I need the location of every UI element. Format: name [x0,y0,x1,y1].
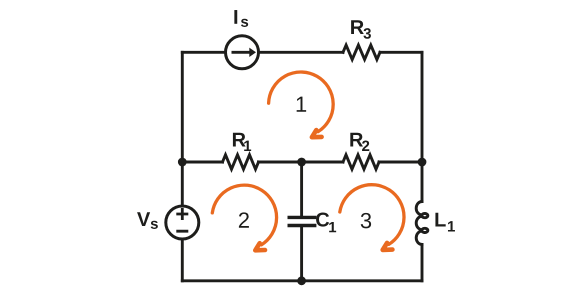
node dot center-bottom [297,276,306,285]
mesh number 2 [239,212,249,227]
mesh current arrow 2 [212,185,276,250]
wire: top, left of current source [182,51,225,54]
mesh number 3 [361,213,371,229]
label Vs (voltage source) [137,212,158,229]
wire: middle rail, between R1 and R2 [259,161,344,164]
wire: center branch above C1 [300,162,303,216]
node dot left-middle [178,158,187,167]
label R2 [350,133,369,151]
inductor L1 coil [416,202,428,245]
mesh current arrow 1 [269,72,334,137]
wire: right side, above L1 [421,52,424,201]
wire: top, right of R3 [380,51,422,54]
wire: left side, above Vs [181,52,184,205]
wire: middle rail, right of R2 [379,161,422,164]
resistor R3 zigzag [343,45,380,59]
mesh number 1 [297,97,306,112]
resistor R1 zigzag [223,155,259,169]
node dot center-middle [297,158,306,167]
wire: center branch below C1 [300,227,303,281]
wire: left side, below Vs [181,239,184,280]
label C1 [316,212,336,232]
node dot right-middle [418,158,427,167]
wire: middle rail, left of R1 [182,161,222,164]
wire: bottom rail [182,279,422,282]
current source Is circle [226,36,259,69]
mesh current arrow 3 [340,185,404,250]
wire: right side, below L1 [421,245,424,281]
resistor R2 zigzag [343,155,379,169]
label L1 [435,213,455,232]
capacitor C1 plates [288,217,317,225]
label R3 [351,20,371,39]
label Is (current source) [234,10,248,27]
wire: top, between current source and R3 [258,51,343,54]
label R1 [233,133,251,151]
voltage source Vs circle with polarity [166,206,199,239]
